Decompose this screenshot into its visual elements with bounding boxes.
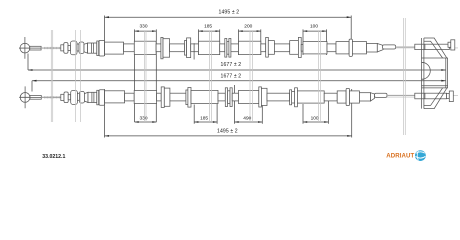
adjuster cap top: [99, 40, 104, 56]
bracket face top edge: [422, 57, 448, 59]
block E top: [268, 41, 274, 55]
sheath block F bottom (100): [297, 91, 324, 103]
sheath narrow 5 bottom: [232, 93, 238, 101]
svg-text:100: 100: [310, 24, 318, 30]
bracket right edge: [446, 58, 448, 89]
sheath block C bottom (185): [191, 90, 218, 103]
end rod top: [383, 45, 396, 49]
ferrule top: [61, 45, 64, 51]
dimension 185 top: [199, 24, 220, 55]
sheath narrow 8 top: [274, 44, 289, 52]
bracket left edge: [422, 38, 424, 109]
svg-text:1677 ± 2: 1677 ± 2: [221, 73, 242, 79]
sheath block B top (330): [134, 41, 156, 54]
sheath narrow 4 top: [191, 44, 199, 52]
inner cable top left: [41, 47, 61, 49]
sheath narrow 10 top: [327, 44, 336, 52]
ring top (1495 ref): [349, 39, 352, 56]
sheath narrow 7 bottom: [324, 93, 337, 101]
dimension 1677+-2 lower: [32, 73, 446, 91]
end cap bottom: [449, 91, 453, 102]
dimension 1677+-2 upper: [28, 54, 446, 71]
centerline top cable: [19, 47, 458, 49]
block F top: [290, 41, 299, 55]
centerline bottom cable: [19, 95, 458, 97]
dimension 1495+-2 top: [105, 9, 352, 137]
end cone top: [377, 44, 383, 53]
part number 33.0212.1: [42, 154, 65, 160]
spool clamp top: [225, 39, 231, 58]
spool clamp bottom: [225, 88, 232, 107]
sheath narrow 7 top: [261, 44, 266, 52]
braid bottom cable: [45, 96, 60, 98]
bracket face bottom edge: [422, 86, 448, 88]
dimension 200 top: [239, 24, 261, 55]
threaded end top: [415, 44, 450, 49]
sheath narrow 5 top: [220, 44, 225, 52]
long grey extension line pair x209-212: [210, 31, 212, 122]
dimension 490 bottom: [235, 85, 263, 124]
long grey extension line pair x144-146: [145, 31, 146, 122]
svg-text:33.0212.1: 33.0212.1: [42, 154, 65, 160]
braid top cable: [45, 47, 60, 49]
cone top: [84, 43, 88, 53]
svg-text:490: 490: [243, 116, 251, 122]
sheath block A bottom: [105, 91, 125, 103]
flange E bottom: [259, 87, 262, 107]
bellows top: [64, 41, 84, 55]
long grey extension line pair x51-53: [51, 30, 52, 122]
long grey extension line pair x75-81: [76, 30, 81, 122]
clamp flange top: [161, 37, 163, 58]
end cap top: [451, 40, 455, 50]
svg-text:330: 330: [140, 24, 148, 30]
clip pin top cable: [193, 43, 195, 59]
cone bottom: [84, 92, 88, 102]
svg-text:1677 ± 2: 1677 ± 2: [221, 62, 242, 68]
end rod bottom: [375, 93, 388, 97]
sheath block D bottom (490): [239, 90, 259, 103]
adjuster cylinder top: [88, 43, 97, 53]
sheath narrow 3 bottom: [170, 93, 186, 101]
svg-text:1495 ± 2: 1495 ± 2: [219, 9, 240, 15]
dimension 100 bottom: [303, 101, 328, 124]
bellows bottom: [64, 90, 84, 104]
sheath narrow 1 top: [124, 44, 135, 52]
flange F top: [298, 37, 301, 57]
inner cable bottom left: [41, 96, 61, 98]
svg-text:185: 185: [204, 24, 212, 30]
long grey extension line pair x403-405: [404, 18, 406, 135]
flange E top: [266, 37, 269, 57]
svg-text:185: 185: [200, 116, 208, 122]
sheath narrow 11 top: [367, 44, 378, 53]
bracket top plate: [424, 38, 447, 58]
long grey extension line pair x250-253: [250, 31, 253, 122]
grommet flange pair bottom: [186, 88, 191, 108]
ADRIAUTO logo: [386, 150, 426, 161]
svg-text:1495 ± 2: 1495 ± 2: [217, 129, 238, 135]
svg-text:330: 330: [140, 116, 148, 122]
dimension 100 top: [303, 24, 327, 55]
sheath narrow 6 bottom: [267, 93, 290, 101]
dimension 1495+-2 bottom: [105, 89, 352, 138]
sheath block C top (185): [199, 41, 220, 54]
svg-text:ADRIAUT: ADRIAUT: [386, 153, 414, 160]
barrel bottom: [30, 96, 41, 100]
barrel top: [30, 46, 41, 50]
sheath block I top: [352, 42, 366, 54]
adjuster cap bottom: [99, 90, 104, 106]
sheath narrow 9 top: [301, 44, 303, 51]
sheath block H top: [336, 42, 349, 54]
clamp flange bottom: [161, 87, 164, 108]
sheath narrow 4 bottom: [218, 93, 225, 101]
sheath narrow 8 bottom: [359, 93, 370, 101]
svg-text:200: 200: [244, 24, 252, 30]
bracket bottom plate: [424, 88, 447, 109]
eyelet top: [19, 37, 32, 59]
sheath block G bottom: [337, 91, 346, 103]
svg-text:100: 100: [311, 116, 319, 122]
sheath block H bottom: [350, 91, 360, 103]
adjuster flange top: [97, 41, 99, 56]
long grey extension line pair x318-321: [319, 31, 321, 122]
dimension 330 bottom: [135, 116, 157, 123]
eyelet bottom: [19, 86, 32, 108]
grommet flange pair 2 bottom: [290, 88, 298, 107]
sheath block B bottom (330): [134, 90, 156, 103]
sheath narrow 1 bottom: [125, 93, 135, 101]
adjuster cylinder bottom: [88, 92, 97, 102]
block E bottom: [261, 88, 267, 105]
end cone bottom: [371, 93, 375, 101]
ring bottom (1495 ref): [346, 88, 349, 105]
inner cable bottom right: [387, 94, 415, 96]
sheath narrow 2 top: [156, 44, 161, 52]
dimension 330 top: [135, 24, 157, 122]
threaded end bottom: [415, 93, 447, 99]
bracket notch arc: [422, 62, 431, 79]
ferrule bottom: [61, 94, 64, 100]
dimension 185 bottom: [194, 104, 217, 124]
sheath block A top: [105, 42, 124, 54]
adjuster flange bottom: [97, 90, 99, 105]
clamp block top: [163, 39, 170, 58]
inner cable top right: [396, 46, 415, 48]
end stub bottom: [447, 94, 450, 99]
clamp block bottom: [164, 88, 170, 106]
end stub top: [448, 42, 451, 47]
sheath narrow 3 top: [170, 44, 185, 52]
sheath narrow 6 top: [231, 44, 239, 52]
sheath narrow 2 bottom: [157, 93, 162, 101]
sheath block G top (100): [303, 42, 327, 54]
grommet flange pair top: [185, 38, 191, 58]
sheath block D top (200): [239, 41, 261, 54]
